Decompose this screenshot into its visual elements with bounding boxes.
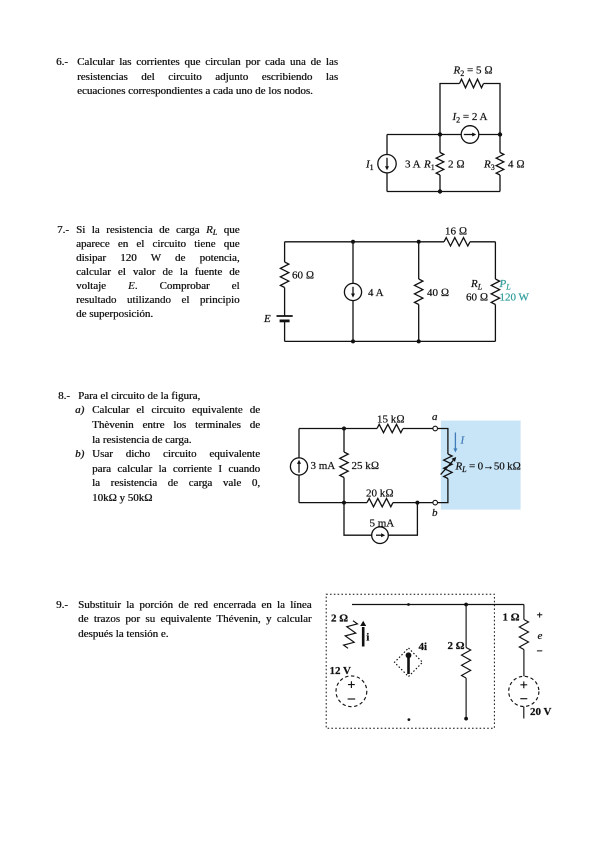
svg-text:R3: R3 [483, 159, 495, 173]
wire left branch [386, 135, 388, 192]
node dot 25k bottom [342, 501, 346, 505]
RL variable arrow [441, 460, 454, 474]
node dot 25k top [342, 427, 346, 431]
wire a to RL [438, 429, 448, 455]
svg-text:60 Ω: 60 Ω [466, 292, 488, 304]
resistor R2 [460, 79, 484, 88]
battery E short plate [280, 319, 290, 322]
resistor 15k [377, 424, 403, 432]
highlight box [441, 421, 521, 510]
svg-text:25 kΩ: 25 kΩ [352, 460, 380, 472]
wire 1ohm to 20V [523, 650, 525, 677]
svg-text:4 Ω: 4 Ω [508, 159, 525, 171]
circuit 8 [280, 400, 530, 550]
svg-text:PL: PL [499, 278, 512, 292]
resistor 25k [340, 452, 348, 478]
5mA arrowhead [381, 533, 385, 537]
dashed enclosure [326, 594, 494, 728]
4A arrowhead [351, 294, 355, 298]
source 12V dashed circle [336, 676, 367, 707]
resistor RL variable [444, 454, 452, 479]
dep source arrow bold [407, 657, 410, 675]
wire top loop [440, 84, 460, 135]
resistor 20k [367, 498, 393, 506]
terminal a [433, 426, 438, 431]
resistor 2ohm slanted [343, 620, 358, 649]
12V minus [348, 698, 356, 700]
wire 5mA loop [344, 503, 417, 536]
svg-text:3 mA: 3 mA [311, 460, 336, 472]
current source I1 [378, 155, 396, 173]
wire top [352, 604, 524, 606]
circuit 7 [260, 220, 550, 355]
battery E long plate [277, 315, 293, 317]
resistor R3 [496, 153, 504, 176]
svg-text:−: − [537, 646, 543, 658]
resistor 1ohm [519, 620, 528, 650]
node dot top mid [407, 603, 410, 606]
circuit 9 [315, 585, 585, 735]
problem 7 text [57, 223, 240, 321]
svg-text:e: e [538, 630, 543, 642]
svg-text:15 kΩ: 15 kΩ [377, 414, 405, 426]
wire R3 branch [499, 135, 501, 192]
svg-text:I1: I1 [365, 159, 374, 173]
wire bottom [387, 191, 500, 193]
svg-text:R2 = 5 Ω: R2 = 5 Ω [453, 65, 493, 79]
3mA arrowhead [297, 460, 301, 464]
node dot mid-left [438, 132, 442, 136]
wire 40ohm branch [418, 242, 420, 342]
current source 5mA [372, 527, 389, 544]
svg-text:RL: RL [470, 278, 483, 292]
svg-text:1 Ω: 1 Ω [503, 612, 520, 624]
svg-text:16 Ω: 16 Ω [445, 226, 467, 238]
terminal b [433, 500, 438, 505]
svg-text:I2 = 2 A: I2 = 2 A [452, 111, 488, 125]
svg-text:20 kΩ: 20 kΩ [366, 488, 394, 500]
20V plus [520, 681, 527, 688]
node dot bottom mid [408, 718, 411, 721]
wire RL to b [438, 479, 448, 503]
svg-text:20 V: 20 V [530, 706, 552, 718]
svg-text:12 V: 12 V [330, 665, 352, 677]
node dot top right-branch [464, 603, 468, 607]
wire left branch [298, 429, 300, 503]
problem 8 text [58, 389, 260, 506]
source 20V dashed circle [509, 676, 539, 706]
resistor 60ohm [280, 262, 288, 288]
svg-text:60 Ω: 60 Ω [292, 270, 314, 282]
circuit 6 [340, 50, 570, 210]
dep source 4i dotted diamond [395, 648, 423, 677]
svg-text:5 mA: 5 mA [370, 518, 395, 530]
wire right down [523, 605, 525, 620]
wire bottom [285, 340, 496, 342]
resistor RL 60ohm [491, 279, 499, 305]
resistor R1 [436, 153, 444, 176]
I2 arrowhead [472, 133, 476, 137]
svg-text:R1: R1 [423, 159, 435, 173]
20V minus [520, 698, 527, 700]
resistor 16ohm [444, 238, 470, 246]
node dots top [351, 240, 355, 244]
svg-text:2 Ω: 2 Ω [331, 613, 348, 625]
svg-text:4 A: 4 A [368, 287, 384, 299]
12V plus [348, 681, 355, 688]
svg-text:3 A: 3 A [405, 159, 421, 171]
current source 3mA [290, 458, 307, 475]
svg-text:4i: 4i [419, 641, 428, 653]
current source 4A [344, 283, 361, 300]
node dot bottom [438, 189, 442, 193]
current arrow i bold [362, 627, 365, 647]
svg-text:i: i [366, 632, 369, 644]
svg-text:2 Ω: 2 Ω [448, 159, 465, 171]
wire top [299, 428, 433, 430]
node dot bottom 2ohm [464, 717, 468, 721]
wire left branch [284, 242, 286, 342]
svg-text:b: b [432, 507, 438, 519]
wire 4A branch [352, 242, 354, 342]
node dot mid-right [498, 132, 502, 136]
problem 9 text [56, 598, 312, 641]
resistor 2ohm right [465, 605, 467, 648]
svg-text:E: E [263, 313, 271, 325]
problem 6 text [56, 55, 338, 99]
svg-text:2 Ω: 2 Ω [448, 640, 465, 652]
wire 20k row [299, 502, 433, 504]
svg-text:120 W: 120 W [500, 292, 530, 304]
wire top [285, 241, 444, 243]
node dots bottom [351, 339, 355, 343]
wire 20V stub [523, 707, 525, 719]
current source I2 [461, 126, 479, 144]
I1 arrowhead [385, 166, 389, 170]
wire right branch [494, 242, 496, 342]
resistor 40ohm [415, 279, 423, 305]
svg-text:40 Ω: 40 Ω [427, 287, 449, 299]
svg-text:+: + [537, 610, 543, 622]
blue current arrow I [454, 433, 456, 450]
wire middle [387, 134, 500, 136]
svg-text:a: a [432, 411, 438, 423]
wire R1 branch [439, 135, 441, 192]
wire 25k branch [343, 429, 345, 503]
node dot 5mA right [415, 501, 419, 505]
